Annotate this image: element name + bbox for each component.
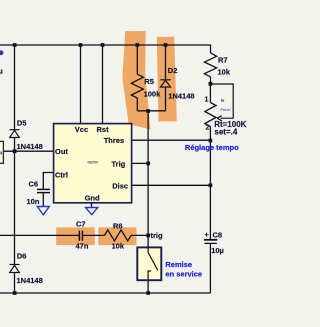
svg-text:C7: C7 — [76, 220, 86, 229]
svg-text:PoLin: PoLin — [221, 108, 231, 112]
svg-text:Ctrl: Ctrl — [55, 170, 68, 179]
svg-text:1N4148: 1N4148 — [168, 92, 194, 101]
svg-text:Réglage tempo: Réglage tempo — [185, 143, 239, 152]
svg-text:Rst: Rst — [97, 125, 110, 134]
svg-text:C8: C8 — [213, 231, 223, 240]
svg-text:Gnd: Gnd — [85, 194, 100, 203]
svg-text:Thres: Thres — [104, 136, 124, 145]
svg-text:Trig: Trig — [112, 159, 126, 168]
svg-text:Vcc: Vcc — [75, 125, 88, 134]
svg-text:10n: 10n — [27, 197, 40, 206]
svg-text:2: 2 — [206, 125, 210, 132]
svg-text:µ: µ — [0, 67, 3, 76]
svg-text:+: + — [204, 230, 209, 239]
svg-text:trig: trig — [151, 231, 164, 240]
svg-text:1N4148: 1N4148 — [17, 142, 43, 151]
svg-text:D2: D2 — [168, 66, 178, 75]
svg-text:D5: D5 — [17, 119, 27, 128]
svg-text:Remise: Remise — [165, 260, 192, 269]
svg-text:R6: R6 — [113, 221, 123, 230]
svg-text:1N4148: 1N4148 — [17, 276, 43, 285]
svg-text:Out: Out — [55, 147, 68, 156]
svg-text:D6: D6 — [17, 252, 27, 261]
svg-text:10µ: 10µ — [211, 246, 224, 255]
svg-text:set=.4: set=.4 — [214, 127, 237, 136]
svg-text:Disc: Disc — [112, 182, 128, 191]
svg-text:100k: 100k — [144, 90, 162, 99]
svg-text:NE555: NE555 — [88, 161, 98, 165]
svg-text:Rt: Rt — [221, 99, 224, 103]
svg-text:R5: R5 — [144, 77, 154, 86]
svg-text:47n: 47n — [76, 242, 89, 251]
svg-text:10k: 10k — [218, 68, 231, 77]
svg-text:en service: en service — [165, 270, 202, 279]
svg-text:10k: 10k — [112, 242, 125, 251]
svg-text:C6: C6 — [29, 180, 39, 189]
svg-text:1: 1 — [205, 97, 209, 104]
svg-text:R7: R7 — [218, 56, 228, 65]
